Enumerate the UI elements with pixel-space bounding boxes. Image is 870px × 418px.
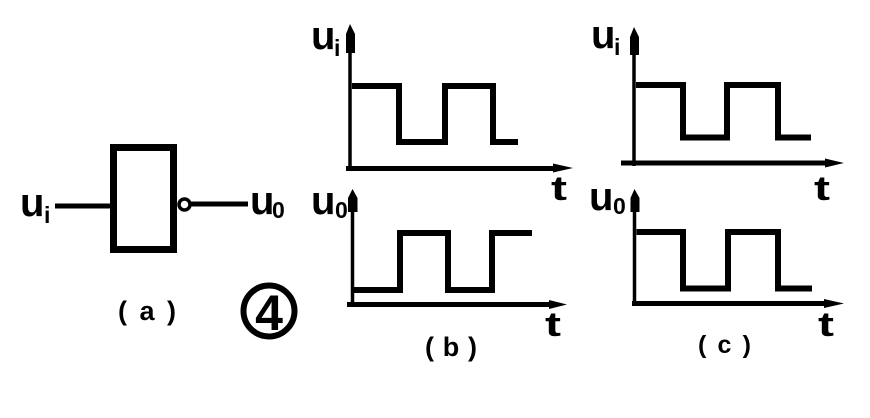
plot c u_i: vertical axis [630,27,639,166]
inverter gate U1 body [114,148,174,250]
plot b: u_i axis label [311,14,340,61]
svg-text:0: 0 [335,197,348,223]
svg-text:(c): (c) [698,331,751,359]
plot c u_i: horizontal axis t [621,159,844,168]
wire input to gate [55,204,114,209]
svg-text:u: u [589,175,613,219]
svg-text:t: t [551,170,567,208]
plot c u_0: square waveform [637,232,813,289]
svg-text:(a): (a) [118,296,176,326]
svg-text:t: t [818,306,834,344]
svg-text:t: t [814,170,830,208]
plot c u_i: square waveform [636,85,811,138]
plot b u_0: horizontal axis t [347,300,567,309]
plot c u_0: vertical axis [631,189,640,305]
plot c: u_0 axis label [589,175,626,219]
svg-text:i: i [614,34,620,60]
svg-text:u: u [311,179,335,223]
svg-text:4: 4 [255,285,283,341]
plot b u_i: square waveform [352,86,518,142]
node u_0 output label [250,179,285,223]
svg-text:u: u [311,14,335,58]
plot b u_0: vertical axis [348,189,358,306]
figure number 4 circled [244,285,295,341]
plot b: u_0 axis label [311,179,348,223]
node u_i input label [20,181,50,228]
svg-text:u: u [591,13,615,57]
plot b u_0: square waveform [354,233,532,290]
svg-text:i: i [44,202,50,228]
plot c u_0: horizontal axis t [632,299,844,308]
svg-text:i: i [334,35,340,61]
svg-text:u: u [250,179,274,223]
inverter output bubble [179,199,190,210]
plot b u_i: vertical axis [346,24,355,171]
svg-text:(b): (b) [425,332,477,362]
plot b u_i: horizontal axis t [346,164,573,173]
svg-text:u: u [20,181,44,225]
svg-text:t: t [545,306,561,344]
svg-text:0: 0 [613,193,626,219]
plot c: u_i axis label [591,13,620,60]
wire gate to output [191,202,248,207]
svg-text:0: 0 [272,197,285,223]
